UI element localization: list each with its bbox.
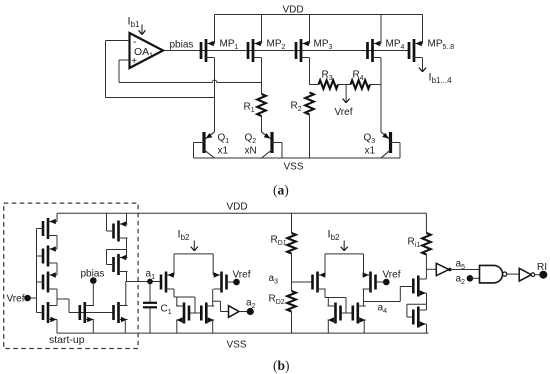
transistor MP3 (PMOS)	[296, 15, 310, 63]
right M-diode source to VSS	[327, 320, 329, 333]
label Ib1	[128, 16, 141, 29]
wire RD2 to VSS	[291, 312, 293, 334]
svg-text:VDD: VDD	[227, 202, 248, 213]
wire M-left source to VSS	[92, 320, 94, 334]
label MP5..8	[428, 39, 455, 51]
wire RI1 to cascode drain	[425, 255, 427, 280]
pbias gate rail wire	[163, 50, 409, 52]
wire M-right drain up to a1	[125, 282, 127, 306]
transistor Q2 (PNP diode)	[262, 132, 283, 158]
label a2 (output)	[246, 298, 256, 310]
svg-text:xN: xN	[245, 146, 257, 157]
net label VDD (a)	[283, 5, 304, 16]
wire RI1 node to buffer B2	[426, 268, 436, 270]
label a4	[378, 303, 388, 315]
wire R1 bottom to Q2	[261, 116, 263, 132]
svg-text:start-up: start-up	[49, 334, 85, 346]
wire inverter to RI output	[535, 274, 544, 276]
left OTA output node wire	[213, 289, 229, 312]
node pbias label	[170, 40, 194, 51]
start-up PMOS chain transistor S1	[43, 218, 57, 239]
node a2 output dot	[247, 308, 254, 315]
resistor RD2	[287, 291, 296, 312]
transistor MP4 (PMOS)	[368, 15, 382, 63]
svg-text:Vref: Vref	[383, 270, 401, 281]
label RI	[537, 262, 547, 273]
start-up PMOS chain transistor S2	[43, 246, 57, 267]
svg-text:(b): (b)	[273, 358, 290, 373]
capacitor C1	[143, 282, 157, 334]
wire OA1 plus input to R1 top node (with crossover bump)	[119, 60, 262, 83]
node RI output dot	[539, 271, 547, 279]
node a5 dot	[448, 268, 452, 272]
figure (a) bandgap core	[106, 5, 455, 198]
transistor MP5..8 (PMOS)	[409, 15, 423, 63]
buffer B1 (a2)	[229, 306, 240, 318]
left OTA Vref gate wire	[227, 281, 237, 283]
buffer B2 (a5)	[436, 263, 449, 275]
cascode lower source to VSS	[426, 324, 428, 333]
start-up dashed box	[4, 203, 138, 348]
wire M-right source to VSS	[124, 320, 126, 334]
right M-out source to VSS	[363, 320, 365, 333]
right OTA mirror gate hook	[341, 298, 353, 314]
left OTA mirror gate hook	[189, 297, 201, 313]
node Vref input dot	[24, 295, 31, 302]
label Vref (a)	[335, 107, 353, 118]
current Ib2 arrow (left)	[191, 241, 198, 251]
VSS rail (a)	[194, 157, 401, 159]
svg-text:(a): (a)	[273, 183, 289, 198]
node pbias dot	[90, 277, 97, 284]
wire S5 drain to S6 source	[126, 238, 128, 258]
M-diode source to VSS	[176, 320, 178, 333]
S5 source to VDD	[126, 213, 128, 224]
S6 gate hook to source node	[107, 250, 127, 265]
wire pbias to M-left drain	[92, 281, 94, 306]
wire buffer B1 output	[239, 311, 250, 313]
start-up chain wires (left column)	[56, 213, 58, 333]
label R4	[353, 70, 364, 82]
right OTA PMOS Vref-input	[363, 272, 376, 293]
label a1	[146, 269, 156, 281]
label Ib2 (left)	[178, 229, 191, 242]
label pbias (b)	[81, 269, 105, 280]
current Ib2 arrow (right)	[341, 241, 348, 251]
label a2 (NAND input)	[456, 274, 466, 286]
caption (b)	[273, 358, 290, 373]
left OTA NMOS mirror M-out	[201, 303, 214, 324]
resistor R2	[305, 93, 314, 115]
label R3	[322, 70, 333, 82]
Vref tap arrow (a)	[343, 85, 350, 103]
wire a2 to NAND input	[470, 277, 480, 279]
resistor RD1	[287, 233, 296, 254]
right OTA tail rail	[325, 254, 364, 275]
cascode NMOS lower (diode)	[413, 307, 426, 328]
wire MP3 drain down	[309, 58, 311, 85]
left OTA PMOS drain wires	[169, 289, 195, 297]
wire a5 to NAND input	[450, 269, 480, 271]
wire VDD to RD1	[291, 213, 293, 233]
left OTA NMOS mirror M-diode	[176, 303, 189, 324]
svg-text:VDD: VDD	[283, 5, 304, 16]
wire S4 drain to bottom-row gates	[57, 299, 114, 313]
svg-text:VSS: VSS	[284, 162, 304, 173]
svg-text:RI: RI	[537, 262, 547, 273]
label MP3	[314, 39, 333, 51]
label Vref (right OTA)	[383, 270, 401, 281]
right OTA NMOS mirror M-out	[353, 303, 366, 324]
wire OA1 minus input to MP1 drain node	[106, 41, 215, 98]
label RD2	[269, 294, 285, 306]
label MP2	[267, 39, 286, 51]
svg-text:pbias: pbias	[170, 40, 194, 51]
label C1	[161, 304, 172, 316]
svg-text:Vref: Vref	[335, 107, 353, 118]
wire node a1	[126, 281, 161, 283]
label Vref (left OTA)	[233, 270, 251, 281]
resistor R4	[351, 80, 371, 89]
wire NAND output to inverter	[507, 273, 519, 275]
caption (a)	[273, 183, 289, 198]
right OTA NMOS mirror M-diode	[328, 303, 341, 324]
label Ib1...4	[429, 72, 453, 85]
svg-text:x1: x1	[365, 146, 376, 157]
wire VDD to RI1	[425, 213, 427, 233]
node wire R2 top / R3-R4 ladder	[310, 84, 382, 86]
net label VSS (a)	[284, 162, 304, 173]
label R2	[291, 101, 302, 113]
label start-up	[49, 334, 85, 346]
left OTA PMOS a1-input	[161, 272, 174, 293]
node Vref dot (left OTA)	[233, 279, 240, 286]
right OTA PMOS drain wires	[321, 289, 347, 298]
left OTA PMOS Vref-input	[214, 272, 227, 293]
cascode diode loop to lower gate	[407, 304, 427, 317]
label MP4	[386, 39, 405, 51]
node a2 input dot	[467, 275, 474, 282]
op-amp OA1	[130, 33, 164, 68]
transistor Q1 (PNP diode)	[194, 132, 215, 158]
label RI1	[408, 237, 421, 249]
transistor MP1 (PMOS)	[201, 15, 215, 63]
node a1 junction dot	[147, 279, 153, 285]
M-diode drain riser	[176, 297, 178, 306]
current Ib1 arrow into OA1	[139, 25, 146, 35]
resistor RI1	[422, 233, 431, 255]
label Q3 x1	[364, 133, 376, 157]
label Q1 x1	[218, 133, 230, 157]
wire MP4 drain down to Q3	[380, 58, 382, 132]
wire MP1 drain to Q1	[214, 58, 216, 132]
label R1	[244, 102, 255, 114]
wire RD1 to RD2 with a3 tap	[292, 254, 313, 292]
label RD1	[271, 235, 287, 247]
S5 gate tie to VDD	[107, 213, 114, 231]
resistor R3	[319, 80, 339, 89]
net label VSS (b)	[227, 340, 247, 351]
wire S6 drain down to a1 line	[126, 272, 128, 282]
figure (b) start-up and detector	[4, 202, 548, 374]
right OTA Vref gate wire	[376, 281, 387, 283]
svg-text:VSS: VSS	[227, 340, 247, 351]
node Vref dot (right OTA)	[383, 279, 390, 286]
right M-diode drain riser	[327, 298, 329, 307]
NAND gate U1	[480, 265, 507, 283]
right OTA output node a4 wire	[364, 287, 414, 307]
svg-text:Vref: Vref	[233, 270, 251, 281]
label a5	[456, 259, 466, 271]
start-up PMOS S5	[114, 221, 128, 242]
cascode lower drain riser	[426, 304, 428, 310]
transistor MP2 (PMOS)	[248, 15, 262, 63]
resistor R1	[257, 94, 266, 116]
label a3	[269, 273, 279, 285]
cascode NMOS upper	[413, 276, 426, 297]
left OTA tail rail	[174, 254, 213, 275]
start-up NMOS M-right	[114, 302, 128, 323]
VDD rail (b)	[57, 212, 426, 214]
svg-text:x1: x1	[218, 146, 229, 157]
cascode upper source down	[426, 293, 428, 304]
label Ib2 (right)	[328, 229, 341, 242]
transistor Q3 (PNP diode)	[381, 132, 400, 158]
inverter U2	[519, 268, 535, 281]
wire MP2 drain to R1	[261, 58, 263, 94]
M-out source to VSS	[212, 320, 214, 333]
start-up NMOS M-left	[80, 302, 94, 323]
svg-text:pbias: pbias	[81, 269, 105, 280]
wire R2 bottom to VSS	[309, 115, 311, 159]
start-up PMOS S6	[114, 254, 128, 275]
right OTA PMOS a3-input	[313, 272, 326, 293]
start-up PMOS chain transistor S3	[43, 272, 57, 293]
VDD rail (a)	[215, 14, 423, 16]
svg-text:Vref: Vref	[7, 294, 25, 305]
label MP1	[220, 39, 239, 51]
label Q2 xN	[245, 133, 257, 157]
net label VDD (b)	[227, 202, 248, 213]
label Vref input (b)	[7, 294, 25, 305]
start-up gate rail to Vref	[28, 229, 44, 313]
start-up NMOS S4	[43, 302, 57, 323]
wire MP5..8 drain with output arrow	[419, 58, 426, 72]
VSS rail (b)	[57, 332, 429, 334]
